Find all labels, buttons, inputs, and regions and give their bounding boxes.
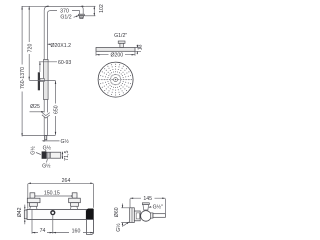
dim 760-1370 <box>19 6 26 136</box>
svg-text:74: 74 <box>40 228 46 234</box>
mixer side neck <box>134 211 140 221</box>
mixer side lever <box>150 213 165 218</box>
svg-text:150.15: 150.15 <box>44 190 60 196</box>
svg-text:145: 145 <box>143 196 152 202</box>
svg-text:Ø20X1.2: Ø20X1.2 <box>51 43 72 49</box>
overhead shower connector <box>118 41 125 48</box>
svg-text:102: 102 <box>99 4 105 13</box>
svg-text:G½: G½ <box>115 223 122 232</box>
svg-text:Ø25: Ø25 <box>30 104 40 110</box>
overhead shower face view <box>98 62 133 97</box>
mixer front: dim 150.15 <box>32 190 75 196</box>
label G1/2 elbow bottom <box>42 159 51 170</box>
mixer front: dim 264 <box>28 178 94 209</box>
label G1/2 side bottom <box>115 222 129 232</box>
elbow wall square <box>42 151 47 158</box>
label G1/2" side <box>148 203 163 210</box>
slider bracket knob <box>38 72 40 90</box>
svg-text:650: 650 <box>53 105 59 114</box>
bottom extension line <box>22 134 55 136</box>
pipe break symbol <box>42 112 50 118</box>
svg-text:370: 370 <box>60 8 69 14</box>
dim O200 <box>96 51 135 58</box>
dim 60-93 <box>39 60 71 72</box>
label G1/2 top arm <box>60 15 79 21</box>
mixer right inlet connector <box>69 193 81 210</box>
svg-text:760-1370: 760-1370 <box>20 67 26 89</box>
mixer handle hub (black) <box>86 209 94 220</box>
mixer left inlet connector <box>27 193 40 210</box>
svg-text:G½: G½ <box>43 144 52 151</box>
svg-text:71,5: 71,5 <box>64 151 70 162</box>
svg-text:60-93: 60-93 <box>58 60 71 66</box>
dim 650 <box>53 81 60 135</box>
svg-text:160: 160 <box>72 228 81 234</box>
svg-text:Ø42: Ø42 <box>17 207 23 217</box>
mixer side body circle <box>141 211 152 222</box>
dim 13 <box>135 44 144 54</box>
mixer diverter screw <box>50 210 55 215</box>
pipe bottom thread stub <box>45 136 47 140</box>
svg-text:G½: G½ <box>29 146 36 155</box>
riser outer sleeve (O25 tube) <box>44 60 49 100</box>
mixer side: dim 145 <box>130 196 165 214</box>
slider reference line <box>29 80 55 82</box>
dim 370 line <box>22 6 86 15</box>
mixer side wall plate <box>130 208 135 223</box>
svg-text:13: 13 <box>138 44 144 50</box>
label G1/2 pipe bottom <box>42 138 70 145</box>
dims 74 and 160 <box>32 210 94 235</box>
svg-text:G½: G½ <box>42 162 51 169</box>
label G1/2 elbow top <box>43 144 52 151</box>
dim 71,5 <box>62 151 70 162</box>
svg-text:264: 264 <box>62 178 71 184</box>
dim 102 <box>85 4 105 16</box>
mixer body <box>24 209 93 219</box>
dim O42 <box>17 205 26 225</box>
label O20X1.2 <box>48 43 72 49</box>
dim 720 <box>27 6 34 80</box>
dim O60 <box>114 204 130 227</box>
overhead shower plate side view <box>96 48 135 52</box>
svg-text:Ø60: Ø60 <box>114 207 120 217</box>
wall union elbow <box>46 152 60 158</box>
svg-text:Ø200: Ø200 <box>110 53 123 59</box>
mixer handle lever front <box>87 219 94 234</box>
svg-text:G½: G½ <box>61 138 70 145</box>
shower arm drop fitting <box>79 14 85 18</box>
slider bracket arm <box>40 79 44 82</box>
svg-text:720: 720 <box>28 44 34 53</box>
svg-text:G1/2": G1/2" <box>114 33 127 39</box>
overhead shower side view label G1/2" <box>114 33 127 39</box>
svg-text:G1/2: G1/2 <box>60 15 71 21</box>
svg-text:G½": G½" <box>153 203 163 210</box>
label O25 <box>30 104 45 112</box>
shower riser pipe <box>44 6 83 135</box>
label G1/2 elbow left <box>29 146 40 155</box>
mixer side top outlet <box>142 203 149 210</box>
